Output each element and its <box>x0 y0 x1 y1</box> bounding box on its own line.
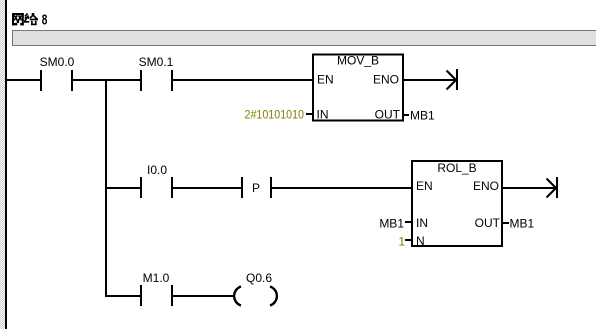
svg-text:IN: IN <box>317 108 329 122</box>
svg-text:ROL_B: ROL_B <box>437 161 476 175</box>
svg-text:MB1: MB1 <box>510 217 535 231</box>
svg-text:2#10101010: 2#10101010 <box>245 108 305 122</box>
svg-text:OUT: OUT <box>475 216 501 230</box>
svg-text:ENO: ENO <box>373 73 399 87</box>
svg-text:EN: EN <box>317 73 334 87</box>
svg-text:Q0.6: Q0.6 <box>246 271 272 285</box>
svg-text:1: 1 <box>398 235 405 249</box>
svg-text:ENO: ENO <box>473 179 499 193</box>
svg-text:SM0.0: SM0.0 <box>40 55 75 69</box>
svg-text:MB1: MB1 <box>410 109 435 123</box>
svg-text:EN: EN <box>416 179 433 193</box>
svg-text:N: N <box>416 234 425 248</box>
svg-text:SM0.1: SM0.1 <box>139 55 174 69</box>
svg-text:IN: IN <box>416 216 428 230</box>
svg-text:MOV_B: MOV_B <box>337 54 379 68</box>
svg-text:OUT: OUT <box>375 108 401 122</box>
svg-text:I0.0: I0.0 <box>147 163 167 177</box>
svg-text:MB1: MB1 <box>379 217 404 231</box>
svg-text:M1.0: M1.0 <box>143 271 170 285</box>
svg-text:8: 8 <box>42 10 48 28</box>
svg-text:P: P <box>252 181 260 195</box>
